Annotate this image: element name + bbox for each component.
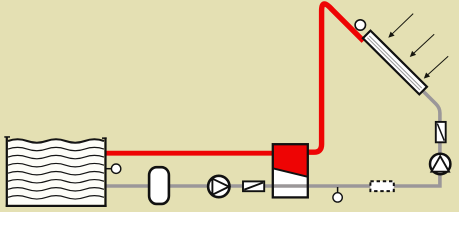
pump P1 circle — [208, 176, 229, 197]
hot (red) side — [273, 144, 308, 177]
sensor circle at tank — [111, 164, 120, 173]
bottom wall — [6, 205, 107, 207]
wire: gray return pipe (tank to collector via right side) — [106, 91, 440, 186]
valve V2 (vertical, on riser return) — [436, 122, 446, 142]
gray pipe through exchanger — [273, 184, 308, 188]
right wall top cap — [102, 137, 107, 139]
water fill below surface — [8, 139, 104, 205]
pump P2 impeller triangle — [431, 156, 449, 172]
pump P2 circle — [430, 154, 450, 174]
wire: red supply pipe horizontal (tank to heat exchanger) — [106, 151, 290, 156]
solar collector panel — [363, 31, 427, 95]
right wall — [104, 137, 106, 207]
pump P1 impeller triangle — [212, 179, 229, 195]
heat exchanger HX — [273, 144, 308, 197]
wire: red supply pipe riser (heat exchanger to collector) — [305, 4, 364, 152]
flow meter (dashed box) — [370, 181, 393, 191]
sun ray arrow 2 — [410, 34, 434, 57]
air vent circle at collector top — [355, 20, 365, 30]
sensor circle on return pipe — [333, 193, 342, 202]
sensor stub on return pipe — [337, 187, 339, 193]
waves — [8, 139, 104, 199]
divider line — [273, 168, 308, 177]
expansion vessel — [149, 167, 169, 204]
sensor stub at tank — [106, 168, 111, 170]
border — [273, 144, 308, 197]
left wall — [6, 137, 8, 207]
sun ray arrow 1 — [388, 14, 413, 38]
check valve V1 — [243, 181, 264, 191]
pool / storage tank with water waves — [4, 136, 106, 207]
left wall top cap — [4, 136, 10, 138]
sun ray arrow 3 — [424, 56, 448, 78]
